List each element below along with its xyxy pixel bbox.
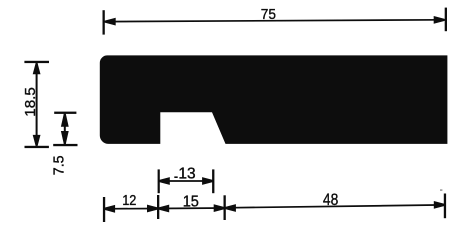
bottom dimensions 12 / 15 / 48 [103, 191, 446, 222]
arrow left from tick 158 [158, 205, 169, 213]
svg-text:7.5: 7.5 [51, 155, 68, 175]
dimension 75 (top) [103, 6, 448, 34]
down arrow [61, 131, 69, 144]
arrow left from tick 225 [225, 204, 236, 212]
tick at notch left [157, 195, 159, 219]
up arrow [33, 63, 41, 74]
scan speck [440, 189, 442, 191]
svg-text:75: 75 [261, 6, 276, 23]
svg-text:12: 12 [122, 192, 136, 209]
dimension 13 (middle upper) [158, 165, 215, 193]
left arrow [159, 177, 170, 185]
bottom tick [53, 144, 77, 146]
svg-text:18.5: 18.5 [22, 87, 39, 117]
arrow left at 104 [104, 205, 115, 213]
arrow right into tick 158 [147, 205, 158, 213]
up arrow [61, 114, 69, 127]
arrow right into tick 225 [214, 204, 225, 212]
small dash before label [174, 176, 177, 178]
left tick [158, 169, 160, 193]
down arrow [33, 135, 41, 146]
profile cross-section shape [100, 55, 448, 143]
left arrow [105, 18, 116, 26]
dimension 7.5 (left inner) [51, 112, 78, 176]
dimension 18.5 (left) [22, 61, 49, 148]
dim line [105, 20, 445, 22]
dim line [36, 63, 38, 146]
dim line [159, 180, 214, 182]
dim line 48 [225, 205, 445, 208]
arrow right into tick 445 [434, 201, 445, 209]
svg-text:13: 13 [178, 165, 195, 182]
tick at notch right [224, 195, 226, 220]
dim line [64, 114, 66, 144]
bottom tick [25, 146, 49, 148]
svg-text:15: 15 [183, 193, 199, 210]
right extension tick [445, 8, 447, 32]
tick at right edge [444, 194, 446, 219]
dim line 15 [158, 207, 225, 210]
right arrow [434, 16, 445, 24]
right arrow [202, 177, 213, 185]
svg-text:48: 48 [323, 191, 338, 209]
dim line 12 [104, 208, 158, 210]
top tick [24, 61, 49, 63]
right tick [212, 169, 214, 193]
top tick [54, 112, 76, 114]
left extension tick [103, 10, 105, 34]
tick at left edge [103, 197, 105, 222]
